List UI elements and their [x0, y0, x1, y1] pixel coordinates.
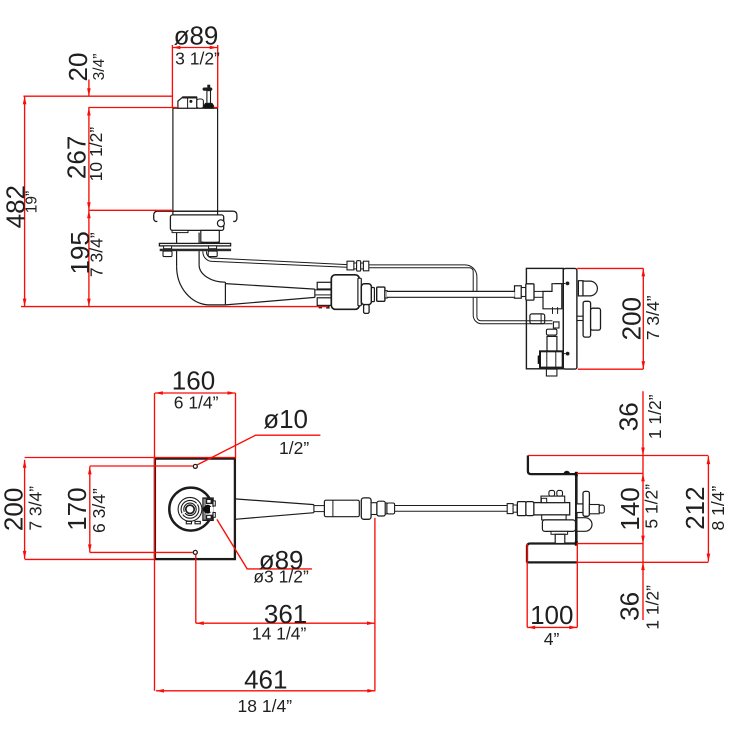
extension wall bottom face	[577, 561, 709, 563]
dim 482: dimension line	[24, 96, 26, 306]
valve barrel (plan)	[534, 503, 570, 515]
screw bump on wall notch	[564, 471, 570, 474]
extension notch bottom	[577, 543, 643, 545]
coupling ring (plan)	[385, 503, 387, 514]
wire: supply tube (plan)	[395, 505, 508, 507]
spout taper end (plan)	[313, 505, 315, 513]
handle blade (elevation)	[583, 301, 591, 337]
wire: connector lines below block	[552, 307, 554, 314]
wire: horizontal supply pipe	[387, 291, 515, 297]
body block side port circle	[217, 220, 224, 227]
wire: elbow outer curve	[177, 266, 226, 305]
wire: control tube to wall plate	[369, 265, 553, 321]
coupling small (plan)	[371, 503, 377, 515]
dim 160: dimension line	[155, 392, 236, 394]
cap shoulder cylinder	[197, 99, 204, 108]
leader ø89 outlet	[217, 519, 312, 569]
svg-text:3 1/2”: 3 1/2”	[175, 49, 220, 69]
stop valve cylinder	[547, 336, 557, 351]
extension line y=210 (bracket)	[89, 209, 173, 211]
vacuum breaker cap small	[578, 281, 583, 296]
valve inlet tab bottom	[317, 298, 331, 306]
body block bottom-left tab	[172, 230, 188, 232]
wire: tapered spout (plan) bottom	[235, 513, 314, 520]
handle tip (plan)	[599, 505, 604, 513]
pipe stub 2 (plan)	[557, 490, 563, 496]
wire: cylinder side stubs through bracket	[172, 211, 174, 215]
svg-text:ø89: ø89	[174, 20, 219, 50]
plate screw top	[555, 283, 565, 285]
handle knob (elevation)	[591, 308, 601, 330]
stop valve hex nut	[540, 351, 563, 367]
coupling nut 2 (plan)	[377, 501, 385, 516]
dim 200 plan: extension lines	[25, 457, 235, 459]
svg-text:461: 461	[244, 665, 287, 695]
svg-text:3/4”: 3/4”	[91, 54, 108, 81]
wire: spout neck (plan)	[314, 505, 325, 507]
spray head outer circle (plan)	[169, 488, 212, 531]
svg-text:160: 160	[172, 365, 215, 395]
svg-text:4”: 4”	[544, 629, 560, 649]
dim 100: extension lines	[526, 544, 528, 628]
tube union fitting	[347, 261, 354, 270]
spray head coil rings	[178, 497, 202, 521]
svg-text:36: 36	[614, 402, 644, 431]
mixing valve body	[331, 275, 359, 310]
wire: tapered spout (plan) top	[235, 499, 314, 505]
upper escutcheon flange plate	[159, 243, 230, 246]
svg-text:212: 212	[680, 486, 710, 529]
flange bolt right	[209, 246, 217, 249]
wall upper block (plan)	[528, 456, 576, 475]
svg-text:7 3/4”: 7 3/4”	[86, 232, 106, 277]
svg-text:1 1/2”: 1 1/2”	[643, 585, 663, 630]
flange bolt left	[164, 246, 172, 249]
svg-text:19”: 19”	[24, 191, 41, 213]
mounting hole bottom	[193, 550, 197, 554]
svg-text:200: 200	[0, 488, 29, 531]
dim 100: dimension line	[527, 626, 577, 628]
outlet small collar	[371, 288, 374, 302]
dim 36/140/36 right: dimension line	[642, 391, 644, 620]
extension line y=306.5 (spout bottom)	[21, 306, 328, 308]
lower escutcheon flange plate	[160, 249, 231, 252]
svg-text:170: 170	[62, 487, 92, 530]
dim 200 elevation: dimension line	[642, 268, 644, 369]
dim 20: extension+arrows	[88, 80, 90, 97]
svg-text:8 1/4”: 8 1/4”	[708, 486, 728, 531]
spray head feet	[186, 521, 191, 523]
svg-text:ø10: ø10	[263, 404, 308, 434]
tube end ring (plan)	[513, 505, 517, 512]
mounting box (plan)	[155, 459, 235, 559]
pipe fitting nut A	[515, 286, 522, 298]
svg-text:6 3/4”: 6 3/4”	[89, 488, 109, 533]
wire: tapered spout top	[225, 284, 315, 290]
outlet ring	[385, 291, 387, 298]
extension hole to 361	[195, 555, 197, 624]
svg-text:18 1/4”: 18 1/4”	[238, 696, 293, 716]
inlet coupling (plan)	[517, 502, 526, 516]
wire: supply pipe vertical walls	[176, 251, 178, 266]
mounting hole top	[193, 464, 197, 468]
lower tube end square	[553, 322, 559, 328]
valve outlet collar	[358, 278, 361, 306]
handle stem (plan)	[576, 504, 583, 513]
dim 361: dimension line	[196, 622, 375, 624]
dim 170: extension lines	[90, 465, 193, 467]
stop valve link	[548, 335, 555, 336]
aerator nut (plan)	[361, 498, 371, 519]
valve barrel left cap (plan)	[526, 502, 534, 516]
cap-nut bullet (plan)	[577, 518, 592, 532]
body block below cylinder	[170, 215, 223, 231]
svg-text:36: 36	[615, 592, 645, 621]
handle arm (plan)	[589, 505, 599, 514]
wire: control tube from flange (bend)	[206, 251, 347, 265]
lower valve body (plan)	[542, 520, 575, 532]
wall plate front (elevation)	[563, 268, 577, 369]
wall plate rear (elevation)	[526, 268, 563, 368]
spout end cap	[314, 289, 316, 297]
wire: supply pipe above flange	[176, 233, 178, 244]
wire: spray-head cylinder body	[173, 108, 218, 211]
cap housing on cylinder top	[178, 97, 197, 108]
svg-text:1 1/2”: 1 1/2”	[645, 394, 665, 439]
clamp screw dot	[203, 505, 212, 514]
lower plinth (plan)	[542, 515, 566, 520]
extension line spout tip	[374, 518, 376, 691]
extension line y=96 (top of unit)	[23, 95, 173, 97]
stop valve washer	[546, 329, 557, 335]
dim ø89 top: extension lines	[171, 45, 173, 108]
wall plate edge (plan)	[575, 474, 578, 543]
aerator body (plan)	[324, 500, 359, 517]
svg-text:140: 140	[615, 487, 645, 530]
coupling nut 3 (plan)	[387, 503, 395, 514]
dim 200 elevation: extension lines	[577, 267, 643, 269]
valve inlet tab top	[317, 282, 331, 289]
svg-text:20: 20	[63, 53, 93, 82]
valve feet	[319, 305, 322, 308]
svg-text:10 1/2”: 10 1/2”	[86, 127, 106, 182]
dim ø89 top: dimension line	[172, 47, 217, 49]
handle blade (plan)	[583, 491, 589, 516]
dim 267/195: dimension line	[88, 108, 90, 307]
dim 200 plan: dimension line	[24, 460, 26, 559]
bleed valve base flange	[204, 103, 214, 108]
handle stem (elevation)	[577, 316, 583, 320]
extension wall top face	[528, 455, 709, 457]
wall lower block (plan)	[526, 544, 576, 563]
lower adapter block	[201, 230, 220, 242]
pipe stub plinth (plan)	[541, 496, 565, 503]
svg-text:5 1/2”: 5 1/2”	[642, 484, 662, 529]
extension line y=107.5 (cylinder top)	[88, 107, 177, 109]
svg-text:14 1/4”: 14 1/4”	[252, 623, 307, 643]
mounting bracket with hooks	[157, 210, 233, 212]
outlet nut	[377, 287, 385, 301]
tube end nut (plan)	[507, 504, 513, 514]
pipe fitting ring A	[521, 288, 526, 297]
cap screw dot	[189, 100, 192, 103]
svg-text:6 1/4”: 6 1/4”	[174, 392, 219, 412]
lower valve base (plan)	[551, 531, 568, 534]
plate junction dark marks	[575, 472, 578, 477]
plate screw bottom	[563, 353, 566, 355]
leader ø10	[197, 435, 320, 465]
elbow-spout joint line	[224, 282, 226, 305]
dim 461: dimension line	[156, 690, 375, 692]
drain tab below plate	[546, 369, 557, 376]
svg-text:100: 100	[530, 600, 573, 630]
pipe stub 1 (plan)	[549, 490, 555, 496]
long red extension left box edge	[154, 393, 156, 691]
dim 170: dimension line	[89, 466, 91, 552]
vacuum breaker dome	[583, 281, 597, 296]
extension notch top	[577, 472, 643, 474]
dim 160: right extension	[235, 393, 237, 459]
wire: tapered spout bottom	[225, 297, 315, 305]
clamp bracket (plan)	[203, 498, 213, 520]
inlet block inside plate	[543, 284, 562, 309]
dim 212: dimension line	[707, 456, 709, 561]
svg-text:ø3 1/2”: ø3 1/2”	[253, 566, 309, 586]
svg-text:7 3/4”: 7 3/4”	[643, 295, 663, 340]
spout neck	[315, 290, 331, 295]
svg-text:7 3/4”: 7 3/4”	[26, 486, 46, 531]
svg-text:1/2”: 1/2”	[279, 438, 309, 458]
barrel left knob (plan)	[541, 498, 546, 502]
lower valve tab (plan)	[555, 534, 565, 543]
bleed valve T-handle	[207, 91, 211, 104]
wire: pipe stub into plate	[534, 290, 543, 292]
lower tube compression fitting	[530, 314, 545, 324]
wire: elbow inner curve	[199, 265, 225, 282]
pipe fitting nut B	[526, 284, 534, 300]
valve drain leg	[361, 284, 371, 305]
